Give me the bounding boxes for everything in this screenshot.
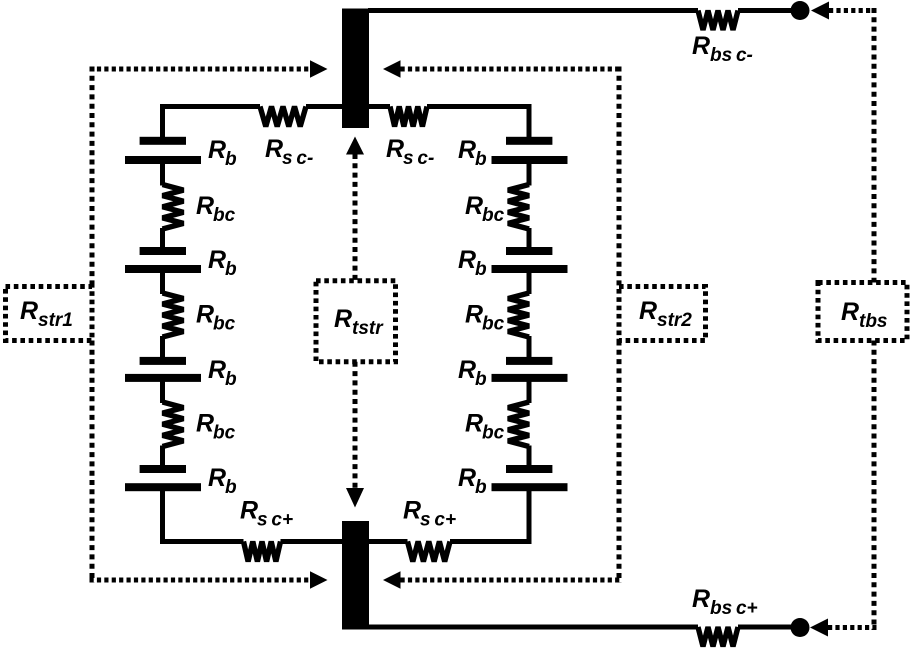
svg-text:bs c-: bs c-	[710, 45, 753, 66]
svg-text:R: R	[208, 136, 226, 164]
dotted line Rtstr upper	[353, 154, 358, 281]
svg-text:bc: bc	[213, 205, 236, 226]
svg-text:s c+: s c+	[420, 510, 456, 531]
svg-text:R: R	[20, 297, 38, 325]
arrow Rstr2 top into busbar	[383, 60, 401, 77]
battery Rb 4 string1 (left)	[140, 465, 186, 473]
resistor Rbc 3 string1 (left) zigzag	[163, 402, 184, 447]
svg-text:tbs: tbs	[859, 311, 888, 332]
dotted loop Rstr1 bottom horizontal	[90, 578, 311, 583]
resistor Rsc- left zigzag	[260, 107, 306, 127]
svg-text:R: R	[240, 497, 258, 525]
battery Rb 3 string1 (left)	[140, 357, 186, 365]
dotted loop Rtbs top horizontal	[829, 8, 877, 13]
node bottom (busbar junction dot)	[791, 618, 810, 637]
svg-text:bs c+: bs c+	[710, 598, 758, 619]
svg-text:R: R	[639, 297, 657, 325]
wire Rsc+ left to busbar	[281, 539, 343, 544]
svg-text:R: R	[196, 192, 214, 220]
svg-text:str1: str1	[38, 310, 73, 331]
dotted line Rtstr lower	[353, 362, 358, 489]
battery Rb 1 string1 (left)	[140, 137, 186, 145]
resistor Rsc- right zigzag	[390, 107, 427, 127]
resistor Rbc 1 string2 (right) zigzag	[508, 185, 529, 230]
busbar bottom (intra-module bus)	[342, 521, 369, 630]
svg-text:b: b	[225, 477, 237, 498]
resistor Rbsc- zigzag	[698, 11, 738, 31]
svg-text:bc: bc	[213, 423, 236, 444]
resistor Rsc+ left zigzag	[244, 542, 281, 562]
svg-text:bc: bc	[213, 314, 236, 335]
wire bottom bus to Rbsc+	[368, 625, 698, 630]
battery Rb 2 string2 (right)	[506, 247, 552, 255]
svg-text:R: R	[208, 246, 226, 274]
svg-text:str2: str2	[657, 310, 692, 331]
busbar top (intra-module bus)	[342, 9, 369, 129]
box Rstr1	[6, 287, 93, 341]
battery Rb 2 string1 (left)	[140, 247, 186, 255]
box Rstr2	[619, 287, 706, 341]
svg-text:b: b	[225, 259, 237, 280]
node top (busbar junction dot)	[791, 1, 810, 20]
wire Rbsc+ to node	[738, 625, 800, 630]
svg-text:R: R	[458, 464, 476, 492]
battery Rb 3 string2 (right)	[506, 357, 552, 365]
svg-text:R: R	[208, 464, 226, 492]
svg-text:R: R	[458, 136, 476, 164]
svg-text:b: b	[475, 369, 487, 390]
wire string2 bottom	[450, 539, 532, 544]
svg-text:s c-: s c-	[282, 148, 313, 169]
wire string1 bottom	[160, 539, 244, 544]
wire busbar to Rsc- right	[369, 104, 390, 109]
dotted loop Rstr2 top horizontal	[401, 67, 622, 72]
dotted loop Rtbs vertical	[872, 8, 877, 630]
dotted loop Rtbs bottom horizontal	[828, 625, 877, 630]
arrow Rstr2 bottom into busbar	[383, 571, 401, 588]
wire string1 (left) vertical segments	[160, 104, 165, 138]
svg-text:R: R	[196, 301, 214, 329]
dotted loop Rstr2 bottom horizontal	[401, 578, 622, 583]
wire top bus to Rbsc-	[368, 8, 698, 13]
resistor Rbc 1 string1 (left) zigzag	[163, 185, 184, 230]
dotted loop Rstr1 vertical	[90, 67, 95, 583]
resistor Rbsc+ zigzag	[698, 627, 738, 647]
arrow Rtstr down into bottom busbar	[346, 488, 364, 508]
svg-text:R: R	[692, 585, 710, 613]
svg-text:R: R	[208, 356, 226, 384]
box Rtbs	[818, 283, 907, 341]
wire Rsc- left to busbar	[306, 104, 342, 109]
svg-text:R: R	[458, 356, 476, 384]
resistor Rbc 2 string1 (left) zigzag	[163, 293, 184, 337]
svg-text:R: R	[465, 301, 483, 329]
svg-text:R: R	[334, 305, 352, 333]
wire string2 top	[427, 104, 532, 109]
svg-text:R: R	[386, 135, 404, 163]
svg-text:b: b	[475, 477, 487, 498]
arrow Rtstr up into top busbar	[346, 137, 364, 155]
svg-text:b: b	[225, 149, 237, 170]
svg-text:s c-: s c-	[403, 148, 434, 169]
resistor Rsc+ right zigzag	[408, 542, 451, 562]
svg-text:R: R	[265, 135, 283, 163]
svg-text:bc: bc	[482, 314, 505, 335]
svg-text:b: b	[475, 149, 487, 170]
svg-text:R: R	[465, 410, 483, 438]
arrow Rstr1 bottom into busbar	[310, 571, 328, 588]
svg-text:b: b	[225, 369, 237, 390]
dotted loop Rstr1 top horizontal	[90, 67, 311, 72]
svg-text:R: R	[403, 497, 421, 525]
svg-text:R: R	[458, 246, 476, 274]
svg-text:R: R	[465, 192, 483, 220]
svg-text:R: R	[841, 298, 859, 326]
arrow Rtbs bottom into node	[810, 619, 828, 637]
arrow Rtbs top into node	[811, 2, 829, 20]
svg-text:bc: bc	[482, 423, 505, 444]
battery Rb 1 string2 (right)	[506, 137, 552, 145]
wire string2 (right) vertical segments	[527, 104, 532, 138]
svg-text:R: R	[692, 32, 710, 60]
battery Rb 4 string2 (right)	[506, 465, 552, 473]
dotted loop Rstr2 vertical	[617, 67, 622, 583]
svg-text:tstr: tstr	[352, 318, 384, 339]
wire Rbsc- to node	[738, 8, 800, 13]
arrow Rstr1 top into busbar	[310, 60, 328, 77]
box Rtstr	[316, 281, 396, 362]
svg-text:R: R	[196, 410, 214, 438]
resistor Rbc 3 string2 (right) zigzag	[508, 402, 529, 447]
wire busbar to Rsc+ right	[369, 539, 408, 544]
resistor Rbc 2 string2 (right) zigzag	[508, 293, 529, 337]
svg-text:s c+: s c+	[257, 510, 293, 531]
wire string1 top	[160, 104, 260, 109]
svg-text:b: b	[475, 259, 487, 280]
svg-text:bc: bc	[482, 205, 505, 226]
